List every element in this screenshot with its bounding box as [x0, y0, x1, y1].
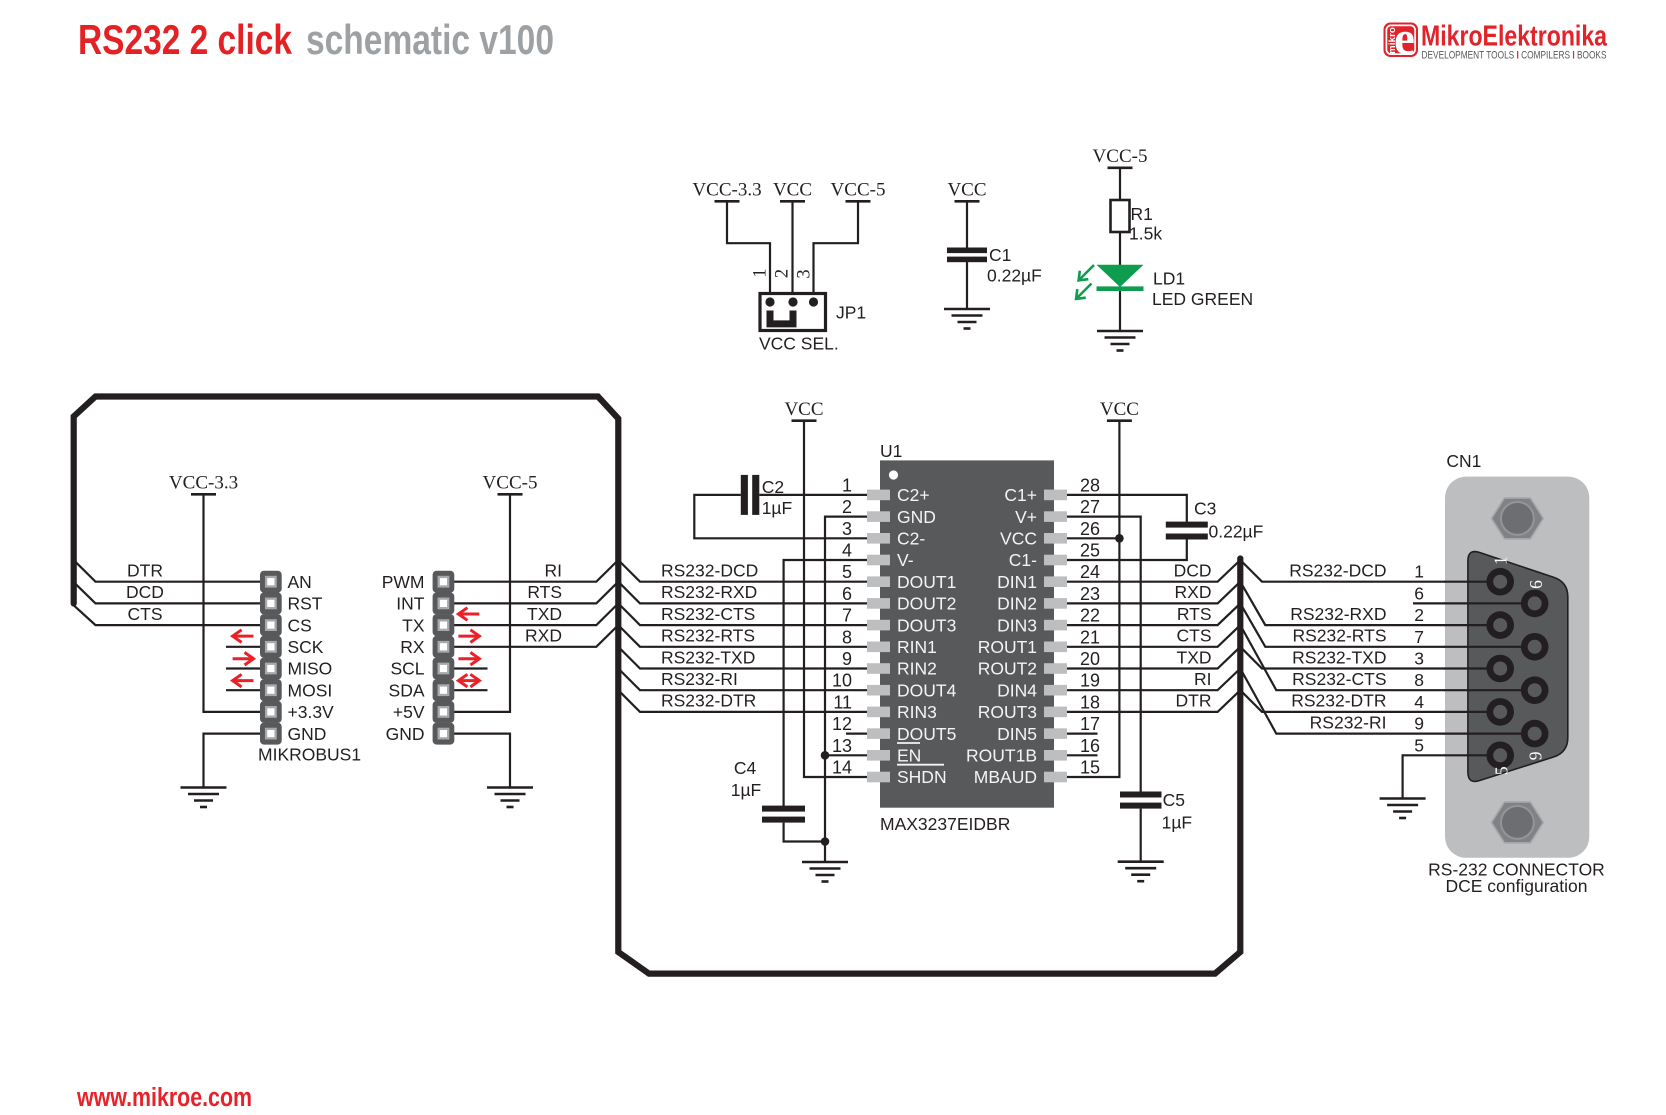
wire VCC-5 to +5V pin	[453, 494, 510, 712]
wire GND header2 to ground	[453, 734, 510, 788]
capacitor C3 (flying)	[1166, 522, 1208, 540]
svg-text:SCK: SCK	[288, 637, 324, 657]
svg-text:CN1: CN1	[1446, 451, 1481, 471]
svg-text:23: 23	[1080, 584, 1100, 604]
svg-text:5: 5	[1492, 766, 1512, 775]
wire RS232-DCD (IC side)	[618, 560, 867, 582]
CN1 pin 8	[1521, 676, 1549, 704]
CN1 top hex nut	[1491, 498, 1543, 539]
svg-text:RI: RI	[545, 561, 563, 581]
wire VCC down to MBAUD pin15	[1067, 421, 1119, 777]
svg-text:DIN2: DIN2	[997, 594, 1037, 614]
svg-text:28: 28	[1080, 475, 1100, 495]
wire RS232-CTS (IC side)	[618, 603, 867, 625]
svg-text:SHDN: SHDN	[897, 767, 947, 787]
svg-text:MIKROBUS1: MIKROBUS1	[258, 745, 361, 765]
ground (LD1)	[1097, 331, 1143, 351]
wire TXD from TX	[453, 603, 618, 625]
CN1 D-sub shell	[1468, 552, 1568, 782]
svg-text:RS232-DTR: RS232-DTR	[661, 691, 756, 711]
power flag VCC (left of U1)	[784, 399, 823, 421]
wire VCC-5 to R1	[1119, 168, 1121, 201]
wire C4 to gnd junction	[784, 823, 825, 842]
arrow (SCL out)	[458, 652, 479, 665]
svg-text:C5: C5	[1163, 790, 1185, 810]
svg-text:9: 9	[1414, 714, 1424, 734]
svg-text:RS232-CTS: RS232-CTS	[661, 604, 755, 624]
svg-text:PWM: PWM	[382, 572, 425, 592]
wire LD1 to ground	[1119, 291, 1121, 331]
U1 left pin stubs	[867, 490, 890, 783]
power flag VCC-3.3 (mikrobus)	[169, 473, 238, 495]
svg-text:RS232-RTS: RS232-RTS	[661, 626, 755, 646]
svg-text:4: 4	[842, 541, 852, 561]
CN1 pin 7	[1521, 633, 1549, 661]
svg-text:RS232-CTS: RS232-CTS	[1292, 669, 1386, 689]
svg-text:1: 1	[842, 475, 852, 495]
svg-text:8: 8	[1414, 670, 1424, 690]
svg-text:2: 2	[773, 269, 793, 278]
svg-text:GND: GND	[897, 507, 936, 527]
stub wire SCK	[226, 646, 261, 648]
wire RS232-RI to DB9 pin9	[1240, 669, 1534, 734]
CN1 pin 1	[1486, 568, 1514, 596]
svg-text:1.5k: 1.5k	[1129, 224, 1162, 244]
svg-text:6: 6	[1526, 580, 1546, 589]
wire pin2 GND down	[825, 517, 867, 862]
svg-text:DOUT1: DOUT1	[897, 572, 956, 592]
wire DCD to RST	[76, 584, 261, 603]
stub wire SDA	[453, 689, 488, 691]
svg-text:0.22µF: 0.22µF	[987, 266, 1042, 286]
svg-text:4: 4	[1414, 692, 1424, 712]
svg-text:MikroElektronika: MikroElektronika	[1421, 21, 1608, 53]
svg-text:ROUT1B: ROUT1B	[966, 746, 1037, 766]
resistor R1	[1111, 200, 1130, 232]
svg-text:7: 7	[1414, 627, 1424, 647]
ground (C1)	[944, 309, 990, 329]
ground (C5)	[1118, 862, 1164, 882]
svg-text:RXD: RXD	[1175, 582, 1212, 602]
ground (header1)	[181, 788, 227, 808]
wire pin27 V+ to C5	[1067, 517, 1141, 793]
wire RS232-RTS to DB9 pin7	[1240, 603, 1534, 646]
svg-text:1: 1	[751, 268, 771, 277]
wire RXD from RX	[453, 625, 618, 647]
CN1 pin 4	[1486, 698, 1514, 726]
power flag VCC-5 (R1)	[1093, 146, 1148, 168]
wire pin4 V- to C4	[784, 560, 867, 807]
svg-text:DOUT2: DOUT2	[897, 594, 956, 614]
svg-text:VCC: VCC	[773, 180, 812, 201]
svg-text:ROUT3: ROUT3	[978, 702, 1037, 722]
wire pin28 C1+ to C3	[1067, 495, 1187, 523]
svg-text:RXD: RXD	[525, 626, 562, 646]
U1 right pin stubs	[1044, 490, 1067, 783]
svg-text:5: 5	[842, 562, 852, 582]
U1 EN overline	[897, 742, 920, 744]
svg-text:DIN3: DIN3	[997, 615, 1037, 635]
op-amp/transceiver U1 MAX3237EIDBR body	[880, 460, 1054, 807]
svg-text:27: 27	[1080, 497, 1100, 517]
svg-text:14: 14	[832, 758, 852, 778]
JP1 shunt (pins 1-2)	[770, 311, 793, 324]
wire RTS from INT	[453, 582, 618, 604]
svg-text:DIN1: DIN1	[997, 572, 1037, 592]
svg-text:6: 6	[842, 584, 852, 604]
svg-text:C2: C2	[762, 477, 784, 497]
svg-text:2: 2	[1414, 605, 1424, 625]
svg-text:RS232-RI: RS232-RI	[661, 669, 738, 689]
wire VCC-3.3 to JP1 pin1	[727, 201, 770, 302]
svg-text:3: 3	[842, 519, 852, 539]
svg-text:11: 11	[833, 692, 852, 712]
svg-text:C2+: C2+	[897, 485, 930, 505]
MikroElektronika logo	[1384, 13, 1608, 65]
svg-text:RS232-TXD: RS232-TXD	[661, 647, 755, 667]
svg-text:VCC-5: VCC-5	[1093, 146, 1148, 167]
svg-text:DIN5: DIN5	[997, 724, 1037, 744]
wire RS232-DCD to DB9 pin1	[1240, 560, 1500, 582]
wire GND header1 to ground	[204, 734, 262, 788]
svg-text:RS232-RXD: RS232-RXD	[661, 582, 757, 602]
svg-text:AN: AN	[288, 572, 312, 592]
connector MIKROBUS1 header B (PWM..GND)	[433, 571, 455, 745]
junction VCC pin26	[1115, 534, 1124, 543]
wire RS232-RTS (IC side)	[618, 625, 867, 647]
svg-text:17: 17	[1080, 714, 1100, 734]
svg-text:10: 10	[832, 671, 852, 691]
CN1 bottom hex nut	[1491, 802, 1543, 843]
power flag VCC (C1)	[947, 180, 986, 202]
svg-text:EN: EN	[897, 746, 921, 766]
capacitor C4	[762, 806, 805, 823]
svg-text:RS232-DCD: RS232-DCD	[661, 561, 758, 581]
svg-text:+5V: +5V	[393, 702, 425, 722]
CN1 pin 6	[1521, 590, 1549, 618]
svg-text:22: 22	[1080, 606, 1100, 626]
svg-text:DCD: DCD	[126, 582, 164, 602]
svg-text:+3.3V: +3.3V	[288, 702, 335, 722]
svg-text:RS232 2 click: RS232 2 click	[78, 16, 293, 63]
svg-text:C1+: C1+	[1004, 485, 1037, 505]
svg-text:C1-: C1-	[1009, 550, 1037, 570]
svg-text:RS232-RXD: RS232-RXD	[1290, 604, 1386, 624]
arrow (SCK in)	[233, 630, 254, 643]
svg-text:LED GREEN: LED GREEN	[1152, 289, 1253, 309]
svg-text:RTS: RTS	[527, 582, 562, 602]
jumper JP1 body	[760, 294, 826, 331]
svg-text:3: 3	[1414, 649, 1424, 669]
wire DTR (to DB9 bundle)	[1067, 690, 1240, 712]
wire VCC-3.3 to +3.3V pin	[204, 494, 262, 712]
svg-text:LD1: LD1	[1153, 269, 1185, 289]
svg-text:21: 21	[1080, 627, 1100, 647]
ground (header2)	[487, 788, 533, 808]
svg-text:RTS: RTS	[1177, 604, 1212, 624]
wire DCD (to DB9 bundle)	[1067, 560, 1240, 582]
wire RS232-TXD (IC side)	[618, 647, 867, 669]
svg-text:VCC SEL.: VCC SEL.	[759, 334, 839, 354]
wire pin26 VCC	[1067, 537, 1119, 539]
ground (U1 left)	[802, 862, 848, 882]
wire RS232-RXD to DB9 pin2	[1240, 582, 1500, 625]
svg-text:VCC: VCC	[1000, 529, 1037, 549]
svg-text:V-: V-	[897, 550, 914, 570]
stub wire pin16	[1067, 754, 1098, 756]
JP1 pin 3	[809, 297, 818, 306]
wire CTS (to DB9 bundle)	[1067, 625, 1240, 647]
svg-text:VCC: VCC	[1100, 399, 1139, 420]
svg-text:V+: V+	[1015, 507, 1037, 527]
power flag VCC (JP1)	[773, 180, 812, 202]
wire TXD (to DB9 bundle)	[1067, 647, 1240, 669]
svg-text:www.mikroe.com: www.mikroe.com	[76, 1084, 252, 1112]
svg-text:DOUT4: DOUT4	[897, 680, 957, 700]
svg-text:mikro: mikro	[1387, 27, 1398, 54]
svg-text:1µF: 1µF	[762, 498, 793, 518]
connector MIKROBUS1 header A (AN..GND)	[260, 571, 282, 745]
svg-text:RIN1: RIN1	[897, 637, 937, 657]
svg-text:C4: C4	[734, 758, 757, 778]
ground (DB9 pin5)	[1380, 799, 1426, 819]
wire C5 to ground	[1140, 809, 1142, 862]
power flag VCC-3.3 (JP1)	[692, 180, 761, 202]
wire VCC to JP1 pin2	[791, 201, 793, 302]
svg-text:JP1: JP1	[836, 303, 866, 323]
svg-text:0.22µF: 0.22µF	[1209, 522, 1264, 542]
svg-text:RST: RST	[288, 594, 323, 614]
wire RI (to DB9 bundle)	[1067, 669, 1240, 691]
svg-text:C1: C1	[989, 245, 1011, 265]
svg-text:RS232-DCD: RS232-DCD	[1289, 561, 1386, 581]
U1 SHDN overline	[897, 764, 944, 766]
svg-text:RI: RI	[1194, 669, 1212, 689]
svg-text:CS: CS	[288, 615, 312, 635]
wire C3 to pin25 C1-	[1067, 540, 1187, 561]
svg-text:13: 13	[832, 736, 852, 756]
stub wire MISO	[226, 667, 261, 669]
svg-text:MISO: MISO	[288, 659, 333, 679]
wire CTS to CS	[74, 605, 261, 625]
svg-text:DOUT5: DOUT5	[897, 724, 956, 744]
svg-text:schematic v100: schematic v100	[306, 16, 554, 63]
svg-text:MAX3237EIDBR: MAX3237EIDBR	[880, 814, 1010, 834]
svg-text:24: 24	[1080, 562, 1100, 582]
CN1 pin 9	[1521, 720, 1549, 748]
junction EN/GND	[821, 751, 830, 760]
wire C1 to ground	[966, 262, 968, 309]
svg-text:DTR: DTR	[1176, 691, 1212, 711]
svg-text:1µF: 1µF	[1162, 813, 1193, 833]
svg-text:5: 5	[1414, 735, 1424, 755]
wire RS232-RXD (IC side)	[618, 582, 867, 604]
junction C4/GND	[821, 837, 830, 846]
svg-text:2: 2	[842, 497, 852, 517]
CN1 pin 3	[1486, 655, 1514, 683]
svg-text:DCD: DCD	[1174, 561, 1212, 581]
svg-text:26: 26	[1080, 519, 1100, 539]
wire C2 to pin3 C2-	[694, 495, 867, 538]
svg-text:DCE configuration: DCE configuration	[1445, 876, 1587, 896]
wire RS232-CTS to DB9 pin8	[1240, 625, 1534, 690]
svg-text:20: 20	[1080, 649, 1100, 669]
svg-text:15: 15	[1080, 758, 1100, 778]
wire segments over CN1 shell	[1444, 582, 1535, 756]
svg-text:12: 12	[832, 714, 852, 734]
wire DTR to AN	[76, 562, 261, 582]
JP1 pin 1	[765, 297, 774, 306]
svg-text:RS232-TXD: RS232-TXD	[1292, 647, 1386, 667]
wire RTS (to DB9 bundle)	[1067, 603, 1240, 625]
power flag VCC-5 (mikrobus)	[483, 473, 538, 495]
arrow (SDA bidir)	[458, 674, 479, 687]
svg-text:MOSI: MOSI	[288, 680, 333, 700]
svg-text:8: 8	[842, 627, 852, 647]
svg-text:GND: GND	[386, 724, 425, 744]
connector CN1 DB9 body	[1445, 477, 1589, 858]
svg-text:DIN4: DIN4	[997, 680, 1037, 700]
svg-text:6: 6	[1414, 583, 1424, 603]
stub wire SCL	[453, 667, 488, 669]
svg-text:U1: U1	[880, 441, 902, 461]
svg-text:SDA: SDA	[389, 680, 425, 700]
capacitor C5	[1120, 792, 1162, 809]
wire R1 to LD1	[1119, 232, 1121, 266]
svg-text:1µF: 1µF	[731, 780, 762, 800]
arrow (TX in)	[458, 608, 479, 621]
wire pin1 C2+ to C2	[759, 494, 867, 496]
wire DB9 pin5 to ground	[1403, 755, 1501, 798]
svg-text:1: 1	[1414, 562, 1424, 582]
svg-text:19: 19	[1080, 671, 1100, 691]
svg-text:CTS: CTS	[1177, 626, 1212, 646]
svg-text:1: 1	[1490, 556, 1510, 565]
wire VCC to SHDN pin14	[804, 421, 867, 777]
capacitor C2 (flying)	[741, 475, 760, 515]
svg-text:TXD: TXD	[1177, 647, 1212, 667]
wire pin13 EN to gnd line	[825, 754, 867, 756]
board outline (thick)	[74, 397, 1241, 974]
svg-text:VCC-3.3: VCC-3.3	[169, 473, 238, 494]
wire RS232-TXD to DB9 pin3	[1240, 647, 1500, 669]
stub wire DB9 pin6	[1413, 602, 1535, 604]
svg-text:TXD: TXD	[527, 604, 562, 624]
capacitor C1	[947, 248, 987, 263]
arrow (MOSI in)	[233, 674, 254, 687]
JP1 pin 2	[788, 297, 797, 306]
wire RXD (to DB9 bundle)	[1067, 582, 1240, 604]
svg-text:VCC-5: VCC-5	[831, 180, 886, 201]
svg-text:18: 18	[1080, 692, 1100, 712]
power flag VCC (right of U1)	[1100, 399, 1139, 421]
power flag VCC-5 (JP1)	[831, 180, 886, 202]
svg-text:R1: R1	[1131, 204, 1153, 224]
svg-text:RS232-RI: RS232-RI	[1310, 712, 1387, 732]
svg-text:VCC-3.3: VCC-3.3	[692, 180, 761, 201]
svg-text:VCC: VCC	[784, 399, 823, 420]
title	[78, 16, 554, 63]
stub wire pin12 DOUT5	[846, 732, 867, 734]
svg-text:DTR: DTR	[127, 561, 163, 581]
wire RS232-RI (IC side)	[618, 669, 867, 691]
svg-text:RX: RX	[400, 637, 425, 657]
svg-text:25: 25	[1080, 541, 1100, 561]
stub wire MOSI	[226, 689, 261, 691]
svg-text:ROUT1: ROUT1	[978, 637, 1037, 657]
svg-text:RS232-DTR: RS232-DTR	[1291, 691, 1386, 711]
arrow (MISO out)	[233, 652, 254, 665]
svg-text:9: 9	[842, 649, 852, 669]
svg-text:RIN3: RIN3	[897, 702, 937, 722]
wire RI from PWM	[453, 560, 618, 582]
svg-text:VCC-5: VCC-5	[483, 473, 538, 494]
svg-text:DEVELOPMENT TOOLS I COMPILERS: DEVELOPMENT TOOLS I COMPILERS I BOOKS	[1422, 50, 1607, 62]
wire VCC-5 to JP1 pin3	[814, 201, 859, 302]
svg-text:VCC: VCC	[947, 180, 986, 201]
svg-text:TX: TX	[402, 615, 425, 635]
CN1 pin 2	[1486, 611, 1514, 639]
wire RS232-DTR (IC side)	[618, 690, 867, 712]
svg-text:C3: C3	[1194, 499, 1216, 519]
svg-text:SCL: SCL	[390, 659, 424, 679]
LED LD1	[1076, 265, 1143, 299]
svg-text:16: 16	[1080, 736, 1100, 756]
svg-text:DOUT3: DOUT3	[897, 615, 956, 635]
CN1 pin 5	[1486, 742, 1514, 770]
svg-text:RIN2: RIN2	[897, 659, 937, 679]
svg-text:C2-: C2-	[897, 529, 925, 549]
svg-text:ROUT2: ROUT2	[978, 659, 1037, 679]
svg-text:RS232-RTS: RS232-RTS	[1292, 626, 1386, 646]
svg-text:INT: INT	[396, 594, 425, 614]
svg-text:9: 9	[1526, 751, 1546, 760]
stub wire pin17	[1067, 732, 1098, 734]
svg-text:MBAUD: MBAUD	[974, 767, 1037, 787]
wire VCC to C1	[966, 201, 968, 248]
U1 pin-1 dot	[889, 470, 898, 479]
svg-text:GND: GND	[288, 724, 327, 744]
wire RS232-DTR to DB9 pin4	[1240, 690, 1500, 712]
svg-text:3: 3	[795, 269, 815, 278]
arrow (RX out)	[458, 630, 479, 643]
svg-text:CTS: CTS	[128, 604, 163, 624]
svg-text:7: 7	[842, 606, 852, 626]
